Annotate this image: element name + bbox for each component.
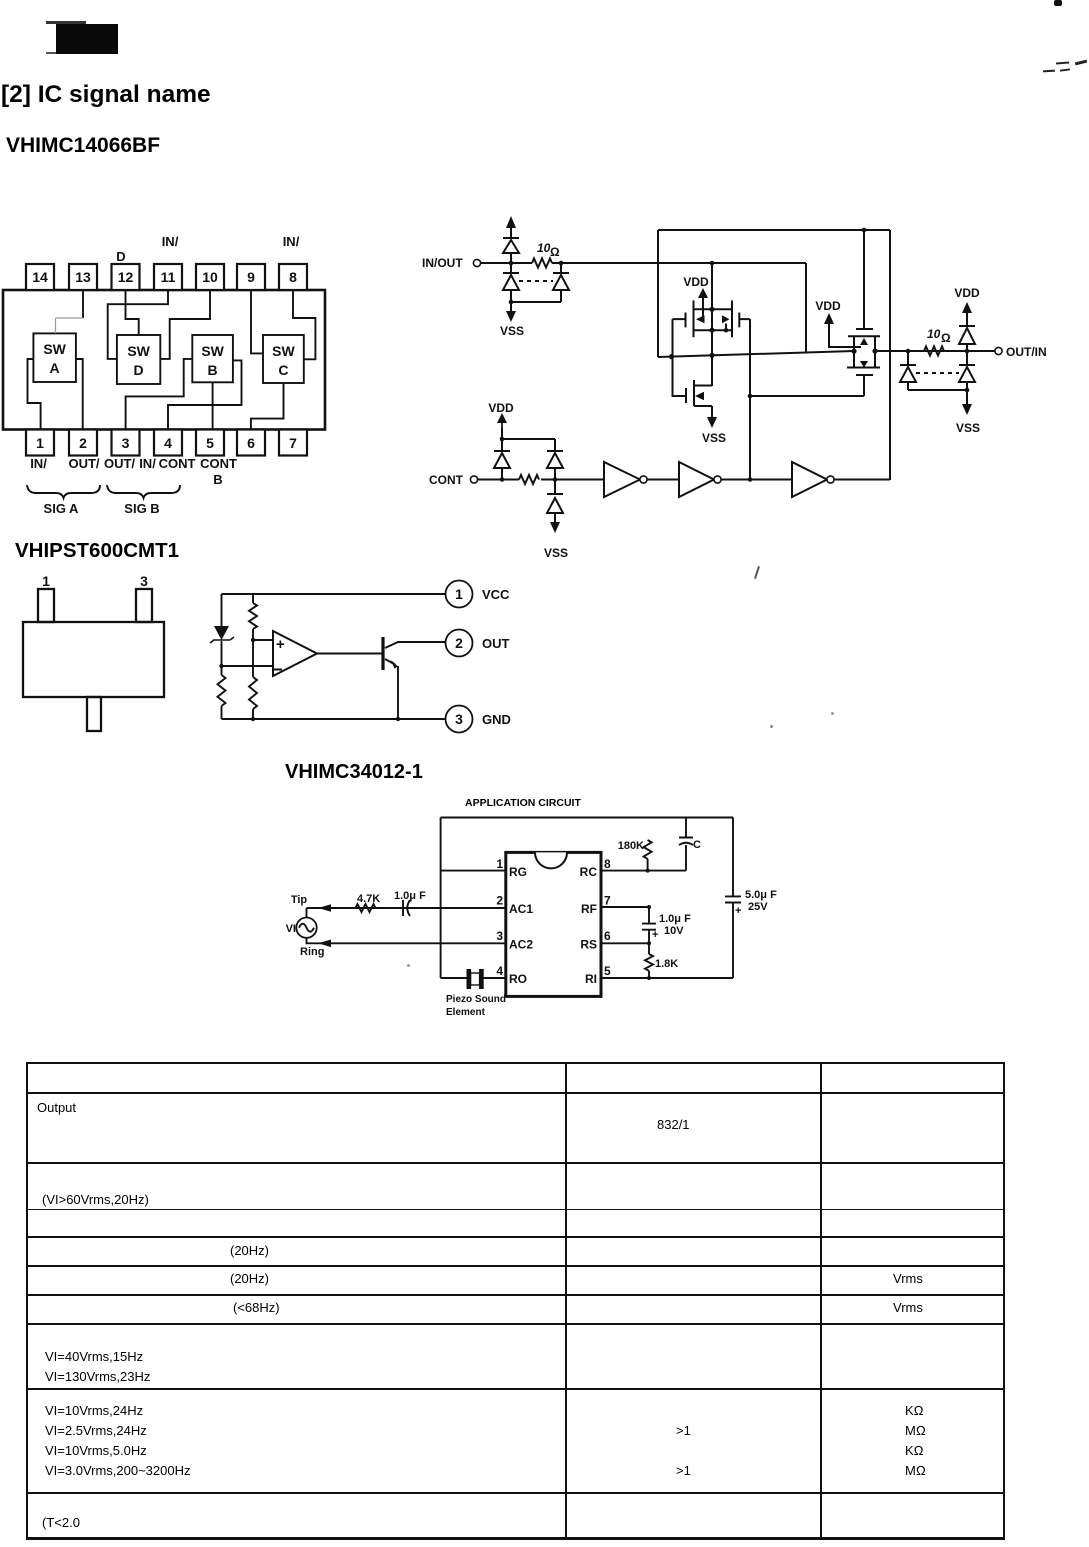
svg-text:B: B xyxy=(213,472,222,487)
svg-text:GND: GND xyxy=(482,712,511,727)
svg-text:8: 8 xyxy=(604,857,611,871)
svg-text:5: 5 xyxy=(206,435,214,451)
svg-text:IN/OUT: IN/OUT xyxy=(422,256,463,270)
svg-text:1: 1 xyxy=(455,586,463,602)
svg-text:10V: 10V xyxy=(664,925,684,937)
svg-text:Ring: Ring xyxy=(300,946,324,958)
svg-text:CONT: CONT xyxy=(159,456,196,471)
svg-text:VSS: VSS xyxy=(702,431,726,445)
svg-text:RG: RG xyxy=(509,865,527,879)
svg-text:SW: SW xyxy=(127,343,150,359)
svg-text:C: C xyxy=(278,362,288,378)
svg-text:Tip: Tip xyxy=(291,894,308,906)
svg-text:AC2: AC2 xyxy=(509,938,533,952)
svg-text:C: C xyxy=(693,839,701,851)
svg-text:9: 9 xyxy=(247,269,255,285)
svg-text:OUT/: OUT/ xyxy=(104,456,135,471)
svg-text:RC: RC xyxy=(580,865,598,879)
svg-text:Ω: Ω xyxy=(550,245,560,259)
svg-text:180K: 180K xyxy=(618,840,644,852)
svg-text:SIG A: SIG A xyxy=(44,501,80,516)
svg-text:VSS: VSS xyxy=(500,324,524,338)
svg-text:VI: VI xyxy=(286,923,296,935)
svg-text:6: 6 xyxy=(604,929,611,943)
svg-text:4: 4 xyxy=(496,964,503,978)
svg-text:SW: SW xyxy=(272,343,295,359)
svg-text:VDD: VDD xyxy=(815,299,841,313)
svg-text:+: + xyxy=(276,636,285,653)
svg-text:SW: SW xyxy=(201,343,224,359)
svg-text:10: 10 xyxy=(202,269,218,285)
svg-text:AC1: AC1 xyxy=(509,902,533,916)
svg-text:VSS: VSS xyxy=(956,421,980,435)
svg-text:OUT/: OUT/ xyxy=(68,456,99,471)
svg-text:CONT: CONT xyxy=(429,473,464,487)
svg-text:1.8K: 1.8K xyxy=(655,958,678,970)
svg-text:11: 11 xyxy=(161,269,176,285)
svg-text:OUT/IN: OUT/IN xyxy=(1006,345,1047,359)
svg-text:3: 3 xyxy=(140,573,148,589)
svg-text:7: 7 xyxy=(604,894,611,908)
svg-text:RF: RF xyxy=(581,902,597,916)
svg-text:5.0μ F: 5.0μ F xyxy=(745,889,777,901)
svg-text:VDD: VDD xyxy=(954,286,980,300)
svg-text:12: 12 xyxy=(118,269,134,285)
svg-text:+: + xyxy=(735,905,741,917)
svg-text:6: 6 xyxy=(247,435,255,451)
svg-text:D: D xyxy=(116,249,125,264)
svg-text:RS: RS xyxy=(580,938,597,952)
svg-text:10: 10 xyxy=(927,327,941,341)
svg-text:Element: Element xyxy=(446,1007,486,1018)
svg-text:3: 3 xyxy=(122,435,130,451)
svg-text:D: D xyxy=(134,362,144,378)
svg-text:IN/: IN/ xyxy=(283,234,300,249)
svg-text:10: 10 xyxy=(537,241,551,255)
svg-text:1: 1 xyxy=(42,573,50,589)
svg-text:3: 3 xyxy=(496,929,503,943)
svg-text:IN/: IN/ xyxy=(139,456,156,471)
svg-text:Piezo Sound: Piezo Sound xyxy=(446,994,506,1005)
svg-text:VCC: VCC xyxy=(482,587,510,602)
svg-text:1.0μ F: 1.0μ F xyxy=(394,890,426,902)
svg-text:2: 2 xyxy=(79,435,87,451)
svg-text:B: B xyxy=(208,362,218,378)
svg-text:1: 1 xyxy=(36,435,44,451)
svg-text:8: 8 xyxy=(289,269,297,285)
svg-text:OUT: OUT xyxy=(482,636,510,651)
svg-text:4: 4 xyxy=(164,435,172,451)
svg-text:VSS: VSS xyxy=(544,546,568,560)
svg-text:SW: SW xyxy=(43,341,66,357)
svg-text:Ω: Ω xyxy=(941,331,951,345)
svg-text:13: 13 xyxy=(75,269,91,285)
svg-text:5: 5 xyxy=(604,964,611,978)
svg-text:4.7K: 4.7K xyxy=(357,893,380,905)
svg-text:14: 14 xyxy=(32,269,48,285)
svg-text:RO: RO xyxy=(509,972,527,986)
svg-text:CONT: CONT xyxy=(200,456,237,471)
svg-text:A: A xyxy=(50,360,60,376)
svg-text:1: 1 xyxy=(496,857,503,871)
svg-text:7: 7 xyxy=(289,435,297,451)
svg-text:VDD: VDD xyxy=(683,275,709,289)
svg-text:2: 2 xyxy=(455,635,463,651)
svg-text:VDD: VDD xyxy=(488,401,514,415)
svg-text:RI: RI xyxy=(585,972,597,986)
svg-text:3: 3 xyxy=(455,711,463,727)
svg-text:+: + xyxy=(652,929,658,941)
svg-text:1.0μ F: 1.0μ F xyxy=(659,913,691,925)
svg-text:IN/: IN/ xyxy=(30,456,47,471)
svg-text:SIG B: SIG B xyxy=(124,501,159,516)
svg-text:25V: 25V xyxy=(748,901,768,913)
svg-text:IN/: IN/ xyxy=(162,234,179,249)
svg-text:2: 2 xyxy=(496,894,503,908)
